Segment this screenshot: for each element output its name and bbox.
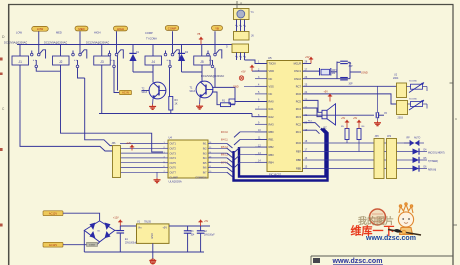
- svg-text:VSS: VSS: [269, 84, 274, 88]
- svg-text:RC5: RC5: [296, 100, 302, 104]
- svg-text:RC4: RC4: [296, 107, 302, 111]
- svg-text:OUT6: OUT6: [170, 167, 177, 170]
- svg-text:COMP: COMP: [168, 26, 177, 30]
- svg-text:+5V: +5V: [353, 118, 358, 120]
- svg-text:DC12V9A@220VAC: DC12V9A@220VAC: [201, 74, 224, 78]
- svg-text:JP1: JP1: [112, 142, 117, 145]
- svg-text:25V1000uF: 25V1000uF: [125, 243, 137, 245]
- svg-text:LOW: LOW: [37, 27, 44, 31]
- svg-text:30P: 30P: [349, 84, 354, 86]
- svg-text:MCLR: MCLR: [294, 62, 301, 66]
- svg-text:M(COOL/HEAT): M(COOL/HEAT): [428, 151, 445, 154]
- svg-text:T(TIMER): T(TIMER): [428, 161, 438, 163]
- svg-text:MED: MED: [78, 27, 84, 31]
- svg-text:RB2: RB2: [269, 145, 275, 149]
- svg-text:CLAMP: CLAMP: [170, 176, 179, 179]
- svg-text:DC12V9A@220VAC: DC12V9A@220VAC: [86, 41, 109, 45]
- svg-text:+5V: +5V: [341, 118, 346, 120]
- svg-text:RC1: RC1: [308, 121, 313, 123]
- svg-text:OUT1: OUT1: [170, 143, 177, 146]
- svg-text:DC12V9A@220VAC: DC12V9A@220VAC: [44, 41, 67, 45]
- svg-text:RA0: RA0: [269, 100, 275, 104]
- svg-text:OUT7: OUT7: [170, 172, 177, 175]
- svg-text:HIGH: HIGH: [117, 27, 124, 31]
- svg-text:COMMON: COMMON: [195, 176, 206, 179]
- svg-text:78L05: 78L05: [144, 221, 152, 224]
- svg-text:SOUND: SOUND: [409, 99, 417, 101]
- svg-text:ULN2003A: ULN2003A: [169, 180, 182, 184]
- svg-text:YB: YB: [197, 33, 201, 36]
- svg-text:IN4: IN4: [203, 157, 207, 160]
- svg-text:AUTO: AUTO: [414, 137, 421, 140]
- svg-text:LOW: LOW: [16, 31, 22, 35]
- svg-text:+12V: +12V: [113, 217, 119, 220]
- svg-text:OSC1: OSC1: [294, 69, 302, 73]
- svg-text:|GND: |GND: [362, 72, 368, 75]
- svg-text:+5V: +5V: [204, 221, 209, 223]
- svg-text:D3SB: D3SB: [89, 245, 95, 247]
- svg-text:NC: NC: [269, 77, 273, 81]
- svg-text:RA3: RA3: [269, 122, 275, 126]
- svg-text:J1: J1: [19, 60, 23, 64]
- svg-text:AC IN: AC IN: [122, 92, 129, 95]
- svg-text:我的图片: 我的图片: [358, 215, 394, 226]
- svg-text:RB0: RB0: [269, 130, 275, 134]
- svg-text:+12V: +12V: [126, 142, 132, 145]
- svg-text:SOUND: SOUND: [409, 81, 417, 83]
- svg-text:VDD: VDD: [269, 69, 275, 73]
- svg-text:IN2: IN2: [203, 148, 207, 151]
- svg-text:R(RUN): R(RUN): [428, 169, 436, 171]
- svg-text:RB7: RB7: [296, 150, 302, 154]
- svg-text:JP2: JP2: [387, 135, 392, 138]
- svg-text:DC12V9A@220VAC: DC12V9A@220VAC: [4, 41, 27, 45]
- svg-text:9013: 9013: [190, 90, 196, 93]
- svg-text:OUT2: OUT2: [170, 148, 177, 151]
- svg-text:RA1: RA1: [269, 107, 275, 111]
- svg-text:IN4 11: IN4 11: [221, 140, 228, 142]
- svg-text:T0CKI: T0CKI: [269, 62, 277, 66]
- svg-text:www.dzsc.com: www.dzsc.com: [332, 258, 383, 265]
- svg-text:GND: GND: [233, 86, 239, 89]
- svg-text:RC3: RC3: [296, 115, 302, 119]
- svg-text:JP3: JP3: [375, 135, 380, 138]
- svg-text:D: D: [226, 46, 228, 49]
- svg-text:J2: J2: [59, 60, 63, 64]
- svg-text:OUT4: OUT4: [170, 157, 177, 160]
- svg-text:J4: J4: [152, 60, 156, 64]
- svg-text:IN3: IN3: [203, 152, 207, 155]
- svg-text:2003: 2003: [398, 117, 404, 120]
- svg-text:TY/COMA: TY/COMA: [146, 38, 157, 41]
- svg-text:RB4: RB4: [269, 160, 275, 164]
- svg-text:+5V: +5V: [305, 56, 310, 59]
- svg-text:OUT5: OUT5: [170, 162, 177, 165]
- svg-text:+5V: +5V: [241, 71, 246, 74]
- svg-text:J5: J5: [200, 60, 204, 64]
- svg-text:NC: NC: [269, 92, 273, 96]
- svg-text:OUT3: OUT3: [170, 152, 177, 155]
- svg-text:30P: 30P: [349, 66, 354, 68]
- svg-text:IN6 13: IN6 13: [221, 155, 228, 157]
- svg-text:IN7: IN7: [203, 172, 207, 175]
- svg-text:RB3: RB3: [269, 153, 275, 157]
- svg-text:4M: 4M: [332, 72, 335, 75]
- svg-text:RP: RP: [407, 138, 411, 140]
- svg-text:www.dzsc.com: www.dzsc.com: [365, 235, 416, 242]
- svg-text:+5V: +5V: [162, 227, 167, 230]
- svg-text:RC6: RC6: [296, 92, 302, 96]
- svg-text:GND: GND: [151, 233, 154, 239]
- svg-text:RC2: RC2: [296, 122, 302, 126]
- svg-text:RA2: RA2: [269, 115, 275, 119]
- svg-text:RC1: RC1: [296, 130, 302, 134]
- svg-text:1K: 1K: [175, 102, 178, 105]
- svg-text:J3: J3: [100, 60, 104, 64]
- svg-text:AC12V: AC12V: [49, 243, 57, 247]
- svg-text:AC12V: AC12V: [49, 212, 57, 216]
- svg-text:9013: 9013: [142, 91, 148, 94]
- svg-text:U4: U4: [169, 136, 173, 140]
- svg-text:IN5: IN5: [203, 162, 207, 165]
- svg-text:+5V: +5V: [324, 91, 329, 94]
- svg-text:MED: MED: [56, 31, 62, 35]
- svg-text:IN6: IN6: [203, 167, 207, 170]
- svg-text:RB1: RB1: [269, 138, 275, 142]
- svg-text:RB6: RB6: [296, 158, 302, 162]
- svg-text:RC0: RC0: [296, 141, 302, 145]
- svg-text:2004: 2004: [393, 77, 399, 80]
- svg-text:Vin: Vin: [138, 227, 142, 230]
- svg-text:YB: YB: [215, 26, 219, 30]
- svg-text:Y1: Y1: [251, 10, 255, 14]
- svg-text:COMP: COMP: [145, 31, 153, 35]
- svg-text:RB5: RB5: [296, 167, 302, 171]
- svg-text:U5: U5: [268, 56, 272, 60]
- svg-text:HIGH: HIGH: [94, 31, 101, 35]
- svg-text:IN3 10: IN3 10: [221, 132, 228, 134]
- svg-text:OSC2: OSC2: [294, 77, 302, 81]
- svg-text:16V100uF: 16V100uF: [204, 234, 215, 236]
- svg-text:RC7: RC7: [296, 84, 302, 88]
- svg-text:IN1: IN1: [203, 143, 207, 146]
